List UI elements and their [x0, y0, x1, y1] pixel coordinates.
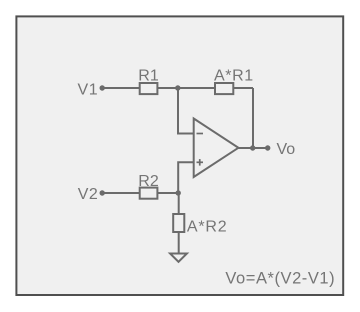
node Vo terminal [265, 145, 270, 150]
node output junction [250, 145, 255, 150]
wire node B down to A*R2 [178, 193, 180, 214]
wire feedback vertical from A*R1 down to output node [252, 88, 254, 148]
svg-text:Vo: Vo [277, 141, 296, 158]
wire V1 to R1 and R1 to A*R1 (top rail) [102, 87, 253, 89]
wire V2 to R2 and R2 to node B [102, 192, 178, 194]
wire node A down to inverting input [178, 88, 194, 134]
svg-text:V2: V2 [78, 186, 99, 203]
svg-text:A*R2: A*R2 [187, 218, 228, 235]
svg-text:Vo=A*(V2-V1): Vo=A*(V2-V1) [225, 270, 335, 288]
resistor A*R1 [215, 83, 233, 94]
svg-text:R1: R1 [138, 68, 159, 85]
node V1 terminal [100, 85, 105, 90]
resistor R2 [140, 188, 158, 199]
node B junction [176, 190, 181, 195]
node A junction [175, 85, 180, 90]
svg-text:R2: R2 [138, 173, 159, 190]
wire noninverting input down to node B [178, 162, 194, 193]
resistor R1 [140, 83, 158, 94]
resistor A*R2 [173, 214, 184, 232]
ground [170, 254, 187, 262]
op-amp inverting pin marker [197, 133, 204, 135]
op-amp [194, 119, 239, 178]
node V2 terminal [100, 190, 105, 195]
svg-text:A*R1: A*R1 [214, 68, 254, 85]
wire op-amp output to Vo terminal [238, 147, 267, 149]
op-amp noninverting pin marker [197, 161, 204, 163]
svg-text:V1: V1 [78, 82, 99, 99]
wire A*R2 down to ground [178, 232, 180, 254]
